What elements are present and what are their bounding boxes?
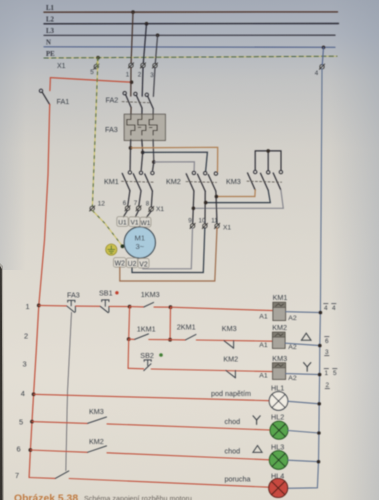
wire rung2 segment a (149, 339, 170, 341)
contactor KM2 pole 3 (166, 172, 218, 191)
breaker FA2 pole 3 (106, 93, 154, 108)
bus L3 (44, 28, 335, 35)
bus N (44, 39, 335, 47)
node 10 junction (204, 201, 208, 205)
wire delta feed phase3 to KM2 pole1 (154, 162, 195, 171)
contactor KM1 pole 3 (104, 171, 154, 191)
terminal X1:1 (126, 63, 134, 79)
wire terminal 8 to motor W1 (147, 211, 152, 217)
contactor KM2 pole 2 (198, 172, 207, 192)
bus L2 (44, 16, 339, 23)
wire FA3 trip link to rung7 (66, 312, 72, 471)
node star bridge (266, 149, 270, 153)
contactor KM2 pole 1 (186, 171, 195, 191)
KM1 mechanical link (122, 180, 154, 183)
wire column2 FA3 to KM1 (141, 152, 143, 170)
bus PE (44, 51, 337, 58)
wire rung4 to HL1 (34, 394, 270, 400)
node FA3 out1 branch (129, 146, 133, 150)
motor M1 (124, 227, 155, 258)
contactor KM3 pole 1 (248, 170, 257, 190)
motor terminal V2 (138, 258, 149, 268)
node D (168, 338, 172, 342)
wire rung5 segment b (107, 424, 270, 430)
node FA3 out3 branch (152, 160, 156, 164)
wire L3 to terminal 3 (155, 35, 157, 63)
KM2 mechanical link (186, 181, 217, 184)
ground symbol (106, 244, 117, 255)
wire control feed from FA1 corner to phase column 1 (50, 78, 131, 83)
node N rail KM3 (318, 373, 322, 377)
wire phase column 3 upper (153, 68, 155, 97)
wire FA2 pole2 to FA3 (141, 108, 143, 115)
terminal X1:7 (134, 200, 141, 211)
wire delta feed phase2 to KM2 pole2 (143, 152, 208, 171)
PE wire terminal 12 to motor frame (93, 211, 123, 247)
wire number annotation 4 4 (324, 304, 336, 312)
SB2 green indicator dot (159, 353, 163, 357)
contact KM3 NC interlock (222, 324, 237, 348)
overload relay FA3 body (105, 114, 165, 140)
contact FA3 NO trip signal (55, 471, 69, 479)
contactor KM3 pole 3 (226, 170, 283, 190)
contact KM2 NO lamp (88, 437, 107, 452)
KM3 mechanical link (247, 181, 282, 182)
wire FA2 pole3 to FA3 (152, 109, 154, 115)
contact KM2 NC interlock (223, 355, 238, 378)
motor terminal W1 (140, 217, 151, 227)
terminal X1:11 (211, 218, 231, 232)
wire rung7 segment a (29, 477, 55, 480)
terminal X1:12 (90, 200, 106, 211)
wire left control rail (29, 105, 50, 478)
wire KM3 pole3 to node 9 (193, 190, 283, 208)
lamp HL4 porucha (225, 472, 288, 498)
pushbutton SB1 NC stop (99, 288, 113, 312)
node A after SB1 (128, 305, 132, 309)
node control tap on column 1 (130, 80, 134, 84)
wire rung6 segment b (107, 453, 269, 460)
node PE at motor frame (121, 244, 125, 248)
wire L1 to terminal 1 (131, 12, 133, 63)
wire FA3 out 2 (141, 140, 144, 153)
terminal X1:8 (146, 200, 165, 212)
wire rung2 segment b (196, 340, 272, 341)
node N rail HL1 (317, 402, 321, 406)
bus L1 (44, 5, 338, 12)
wire number annotation 6 (325, 337, 329, 345)
wire column1 FA3 to KM1 (129, 148, 131, 170)
terminal X1:10 (199, 218, 208, 229)
node N rail KM2 (318, 344, 322, 348)
node L3 junction (156, 34, 160, 38)
node rail rung6 (29, 448, 33, 452)
terminal X1:3 (150, 63, 157, 79)
node rail rung4 (32, 392, 36, 396)
wire number annotation 1 5 (324, 369, 337, 377)
dark book edge left (0, 263, 4, 500)
wire rung5 segment a (32, 422, 88, 424)
wire delta feed phase1 to KM2 pole3 (131, 147, 218, 171)
contact 1KM3 NO (130, 290, 160, 307)
wire motor W2 to terminal 11 (120, 228, 217, 281)
wire rung1 segment b (76, 305, 100, 307)
wire motor V2 to terminal 9 (143, 228, 193, 269)
contact 1KM1 NO seal-in (129, 324, 156, 339)
wire node B down to node D (169, 307, 171, 340)
wire KM1 pole3 to terminal 8 (151, 191, 152, 207)
motor terminal U2 (126, 258, 137, 268)
node PE junction (96, 56, 100, 60)
contact 2KM1 NO (170, 323, 196, 340)
lamp HL1 pod napetim (211, 384, 288, 411)
wire number annotation 2 (325, 382, 329, 389)
wire rung6 segment a (30, 450, 87, 452)
wire KM2 pole2 down (204, 191, 206, 224)
coil KM1 (259, 293, 297, 322)
caption Obrazek 5.38 (14, 494, 192, 500)
node FA3 out2 branch (141, 151, 145, 155)
contact KM3 NO lamp (88, 407, 107, 423)
wire rung1 segment a (39, 304, 67, 307)
motor terminal V1 (129, 217, 140, 227)
star symbol (304, 363, 311, 372)
breaker FA2 pole 2 (134, 92, 142, 108)
wire node A down to node C (128, 307, 131, 340)
terminal X1:4 (315, 64, 325, 77)
wire star bridge centre stub (267, 151, 269, 170)
PE drop wire to terminal 12 (92, 58, 98, 206)
wire number annotation 3 (325, 349, 329, 356)
wire FA3 out 1 (130, 140, 132, 148)
wire KM3 A2 to N rail (286, 374, 320, 375)
node N rail HL3 (317, 460, 321, 464)
wire phase column 2 upper (141, 68, 144, 97)
node rail rung1 (37, 304, 41, 308)
wire column3 FA3 to KM1 (153, 162, 154, 170)
terminal X1:9 (188, 218, 195, 229)
node N rail KM1 (319, 311, 323, 315)
wire motor U2 to terminal 10 (132, 228, 205, 272)
wire HL1 to N rail (288, 401, 319, 404)
wire rung3 segment b (151, 369, 272, 372)
wire KM1 pole1 to terminal 6 (128, 191, 130, 207)
wire phase column 1 upper (130, 68, 132, 96)
lamp HL3 chod delta (225, 442, 288, 469)
node 11 junction (215, 195, 219, 199)
wire terminal 6 to motor U1 (124, 211, 128, 217)
node L1 junction (131, 10, 135, 14)
node 9 junction (192, 207, 196, 211)
wire rung1 to KM1 coil (171, 307, 273, 310)
wire neutral rail right side (288, 69, 322, 488)
wire FA3 out 3 (152, 140, 155, 163)
terminal X1:6 (123, 200, 130, 211)
star bridge bar KM3 (255, 151, 281, 170)
coil KM2 (259, 323, 297, 351)
node rail rung5 (30, 420, 34, 424)
wire rung7 segment b (69, 479, 269, 488)
wire KM3 pole2 to node 10 (206, 190, 271, 202)
wire rung1 segment c (110, 305, 130, 307)
terminal X1:5 (90, 64, 99, 76)
contactor KM1 pole 1 (122, 171, 131, 191)
breaker FA2 pole 1 (123, 92, 131, 108)
contactor KM1 pole 2 (133, 171, 142, 191)
contactor KM3 pole 2 (261, 171, 270, 191)
wire node C down to rung3 corner (127, 339, 130, 368)
delta symbol (301, 333, 311, 340)
node B before KM1 coil (169, 305, 173, 309)
wire L2 to terminal 2 (143, 24, 146, 64)
pushbutton SB2 NO start (140, 351, 154, 371)
contact FA3 NC with thermal actuator (67, 290, 80, 312)
SB1 red indicator dot (115, 291, 118, 294)
wire rung1 segment d (154, 306, 171, 308)
motor terminal W2 (114, 258, 126, 268)
wire KM1 A2 to N rail (286, 311, 321, 314)
wire KM2 pole1 down (193, 191, 194, 224)
wire KM2 A2 to N rail (285, 343, 320, 345)
wire N to terminal 4 (322, 47, 323, 64)
breaker FA1 (39, 78, 69, 106)
lamp HL2 chod Y (225, 413, 289, 440)
wire KM3 pole1 to node 11 (216, 190, 255, 197)
node N rail HL2 (317, 431, 321, 435)
terminal X1:2 (138, 63, 146, 79)
node C (127, 337, 131, 341)
wire FA2 pole1 to FA3 (130, 108, 132, 116)
wire terminal 7 to motor V1 (136, 211, 139, 217)
FA2 mechanical link (122, 102, 151, 103)
wire rung3 corner (128, 367, 144, 370)
coil KM3 (259, 354, 297, 382)
wire KM2 pole3 down (216, 191, 217, 223)
node N junction (322, 46, 326, 50)
wire HL2 to N rail (288, 431, 319, 434)
wire KM1 pole2 to terminal 7 (139, 191, 141, 206)
node L2 junction (145, 22, 149, 26)
motor terminal U1 (117, 217, 128, 227)
wire PE to terminal 5 (97, 58, 98, 65)
wire HL3 to N rail (288, 460, 319, 462)
